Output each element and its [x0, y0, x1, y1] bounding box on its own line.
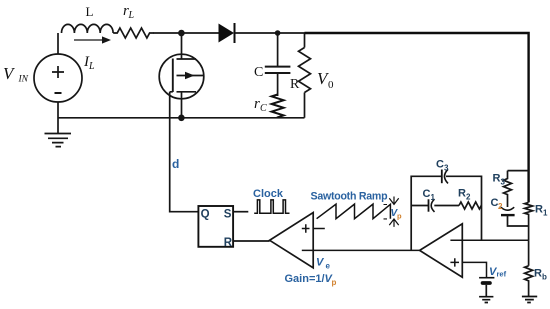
svg-text:d: d — [172, 157, 179, 171]
svg-text:R: R — [534, 268, 542, 280]
svg-text:Clock: Clock — [253, 188, 284, 200]
svg-text:Sawtooth Ramp: Sawtooth Ramp — [311, 191, 389, 203]
svg-text:C: C — [260, 103, 267, 114]
svg-text:1: 1 — [431, 193, 436, 202]
svg-text:Gain=1/V: Gain=1/V — [285, 273, 334, 285]
svg-text:R: R — [458, 188, 466, 200]
svg-text:C: C — [423, 188, 431, 200]
svg-text:ref: ref — [497, 270, 507, 279]
svg-text:L: L — [86, 4, 94, 19]
svg-text:3: 3 — [501, 178, 506, 187]
svg-text:3: 3 — [444, 164, 449, 173]
svg-text:S: S — [224, 208, 232, 220]
svg-text:L: L — [128, 10, 135, 21]
svg-text:R: R — [290, 77, 300, 92]
svg-text:e: e — [326, 262, 331, 271]
svg-text:0: 0 — [328, 79, 334, 91]
svg-text:C: C — [436, 159, 444, 171]
svg-text:R: R — [493, 173, 501, 185]
svg-text:2: 2 — [466, 193, 471, 202]
svg-text:p: p — [332, 278, 337, 287]
svg-text:C: C — [254, 65, 263, 80]
svg-text:Q: Q — [201, 208, 210, 220]
svg-text:IN: IN — [18, 75, 29, 85]
svg-text:R: R — [224, 237, 233, 249]
svg-text:2: 2 — [498, 202, 503, 211]
svg-text:L: L — [88, 61, 95, 72]
svg-text:1: 1 — [543, 209, 548, 218]
svg-text:b: b — [542, 273, 547, 282]
svg-text:p: p — [397, 212, 402, 221]
svg-text:R: R — [535, 204, 543, 216]
